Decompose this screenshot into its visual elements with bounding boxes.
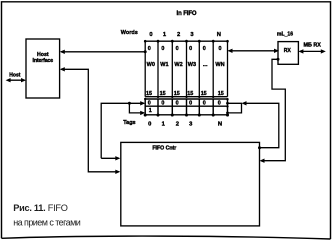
node word indices <box>149 32 221 38</box>
svg-text:1: 1 <box>162 122 166 128</box>
node junction dots tags bottom <box>144 113 229 116</box>
wire words to host <box>61 51 145 53</box>
node junction dots words top <box>144 40 229 43</box>
svg-text:FIFO Cntr: FIFO Cntr <box>152 146 176 152</box>
svg-text:W3: W3 <box>188 62 196 68</box>
fifo controller <box>121 142 260 226</box>
wire fifo to tags right <box>246 103 279 147</box>
tags array <box>145 99 227 115</box>
wire rx to fifo <box>261 59 285 160</box>
svg-text:15: 15 <box>218 91 224 97</box>
svg-text:Host: Host <box>37 52 49 58</box>
svg-text:0: 0 <box>203 100 206 106</box>
wire host-fifo handshake <box>61 69 119 172</box>
svg-text:W1: W1 <box>160 62 168 68</box>
svg-text:Interface: Interface <box>33 58 54 64</box>
svg-text:0: 0 <box>219 46 222 52</box>
node word name labels W0..WN <box>147 62 225 68</box>
node dots tags right edge <box>226 98 228 100</box>
svg-text:W2: W2 <box>174 62 182 68</box>
svg-text:1: 1 <box>163 32 167 38</box>
svg-text:2: 2 <box>177 32 180 38</box>
receiver RX <box>278 42 298 65</box>
svg-text:0: 0 <box>161 100 164 106</box>
wire fifo to tags left <box>101 103 144 158</box>
svg-text:Host: Host <box>9 72 20 78</box>
node tag bit0 labels <box>148 100 221 106</box>
wire words-rx bus mL_16 <box>229 50 277 52</box>
svg-text:15: 15 <box>160 91 166 97</box>
svg-text:N: N <box>218 122 222 128</box>
words array <box>145 41 227 96</box>
svg-text:0: 0 <box>189 100 192 106</box>
svg-text:МБ RX: МБ RX <box>304 43 322 49</box>
svg-text:1: 1 <box>149 108 152 114</box>
svg-text:Tags: Tags <box>123 120 135 126</box>
svg-text:W0: W0 <box>147 62 155 68</box>
svg-text:0: 0 <box>161 46 164 52</box>
svg-text:15: 15 <box>174 91 180 97</box>
svg-text:0: 0 <box>148 122 151 128</box>
svg-text:15: 15 <box>146 91 152 97</box>
host interface U1 <box>26 39 60 98</box>
svg-text:N: N <box>217 32 221 38</box>
svg-text:2: 2 <box>176 122 179 128</box>
svg-text:0: 0 <box>176 100 179 106</box>
svg-text:0: 0 <box>176 46 179 52</box>
svg-text:3: 3 <box>190 32 194 38</box>
svg-text:15: 15 <box>201 91 207 97</box>
node word bit0 labels <box>148 46 222 52</box>
svg-text:0: 0 <box>218 100 221 106</box>
svg-text:0: 0 <box>149 32 152 38</box>
svg-text:на прием с тегами: на прием с тегами <box>13 217 81 227</box>
svg-text:...: ... <box>203 62 208 68</box>
node tag indices <box>148 122 222 128</box>
node junction dots words bottom <box>157 96 215 98</box>
wire host bus <box>8 79 25 81</box>
svg-text:Words: Words <box>121 30 138 36</box>
svg-text:Рис. 11. FIFO: Рис. 11. FIFO <box>13 203 68 213</box>
node dot tags top-left corner <box>144 98 146 100</box>
wire MB RX bus <box>300 50 324 52</box>
svg-text:RX: RX <box>284 48 292 54</box>
svg-text:0: 0 <box>148 100 151 106</box>
svg-text:In FIFO: In FIFO <box>177 11 197 17</box>
node word bit15 labels <box>146 91 224 97</box>
svg-text:15: 15 <box>187 91 193 97</box>
svg-text:0: 0 <box>189 46 192 52</box>
svg-text:0: 0 <box>148 46 151 52</box>
svg-text:3: 3 <box>189 122 193 128</box>
svg-text:WN: WN <box>215 62 224 68</box>
svg-text:0: 0 <box>203 46 206 52</box>
svg-text:mL_16: mL_16 <box>277 31 293 37</box>
